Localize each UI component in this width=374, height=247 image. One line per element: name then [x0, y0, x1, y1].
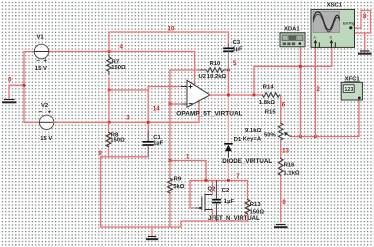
- ground GND3: [275, 225, 287, 228]
- V2 source: [39, 103, 54, 142]
- svg-text:R10: R10: [210, 61, 222, 67]
- wire node5 to output: [227, 70, 229, 95]
- wire R7 bottom to +input riser: [109, 78, 148, 91]
- junction node1: [169, 159, 172, 162]
- wire pot bottom to R16: [280, 141, 282, 159]
- svg-text:R14: R14: [263, 85, 275, 91]
- junction node5: [227, 69, 230, 72]
- svg-text:5kΩ: 5kΩ: [173, 184, 185, 190]
- svg-text:7: 7: [236, 173, 240, 180]
- wire D1 column from output: [227, 95, 229, 140]
- svg-text:13: 13: [282, 147, 289, 154]
- wire D1 anode to node7: [227, 157, 229, 181]
- wire ext ground stub: [364, 33, 366, 51]
- wire 10 R7top to C3: [109, 32, 228, 51]
- junction wire3/R8: [108, 121, 111, 124]
- svg-text:R16: R16: [284, 163, 296, 169]
- svg-text:C3: C3: [233, 40, 241, 46]
- wire net0 to ground: [9, 85, 24, 97]
- junction wire4/R7: [108, 50, 111, 53]
- svg-text:6: 6: [282, 102, 286, 109]
- wire net0 to V2: [24, 85, 39, 122]
- wire Q2 drain riser: [212, 181, 214, 195]
- wire R7col down to wire3: [108, 90, 110, 122]
- wire -input: [170, 103, 182, 105]
- op-amp U2: [176, 74, 242, 118]
- svg-text:R9: R9: [174, 176, 182, 182]
- svg-text:V2: V2: [41, 103, 49, 109]
- resistor R13: [245, 181, 264, 222]
- junction wire3/C1: [147, 121, 150, 124]
- wire 1: [170, 161, 206, 181]
- svg-text:1µF: 1µF: [153, 141, 164, 147]
- wire XDA1 pin down: [299, 44, 301, 137]
- svg-text:8: 8: [363, 13, 367, 20]
- junction node0: [23, 84, 26, 87]
- svg-text:XSC1: XSC1: [327, 2, 343, 8]
- wire ground bus bottom: [101, 221, 248, 227]
- resistor R14: [259, 85, 281, 106]
- junction XDA1/wiper: [299, 135, 302, 138]
- resistor R9: [168, 161, 185, 227]
- svg-text:15 V: 15 V: [40, 136, 52, 142]
- svg-text:0: 0: [282, 199, 286, 206]
- svg-text:R15: R15: [265, 109, 277, 115]
- junction output: [227, 94, 230, 97]
- svg-text:2: 2: [316, 86, 320, 93]
- transistor Q2: [196, 187, 260, 223]
- wire 3 V2 to opamp V-: [54, 102, 199, 123]
- svg-text:XDA1: XDA1: [284, 27, 300, 33]
- svg-text:1µF: 1µF: [232, 47, 243, 53]
- wire output: [210, 94, 263, 96]
- svg-text:10.2kΩ: 10.2kΩ: [207, 74, 227, 80]
- svg-text:V1: V1: [37, 35, 45, 41]
- junction -input: [169, 103, 172, 106]
- svg-text:150Ω: 150Ω: [111, 65, 126, 71]
- svg-text:1.8kΩ: 1.8kΩ: [259, 100, 275, 106]
- wire ground stub: [151, 227, 153, 236]
- svg-text:10: 10: [168, 25, 175, 32]
- ground GND4: [359, 51, 371, 54]
- wire feedback left: [170, 70, 201, 104]
- junction wire1/node7: [205, 179, 208, 182]
- svg-text:9: 9: [98, 150, 102, 157]
- svg-text:150Ω: 150Ω: [110, 138, 125, 144]
- capacitor C1: [143, 131, 163, 157]
- wire net0 V1-junction: [24, 52, 34, 86]
- svg-text:C2: C2: [222, 188, 230, 194]
- junction D1/node7: [227, 179, 230, 182]
- svg-text:D1: D1: [234, 137, 242, 143]
- wire node1 column: [169, 104, 171, 161]
- svg-text:14: 14: [153, 106, 160, 113]
- wire node14 riser down to C1: [147, 90, 149, 141]
- svg-text:150Ω: 150Ω: [250, 209, 265, 215]
- svg-text:0: 0: [8, 77, 12, 84]
- capacitor C2: [213, 181, 235, 222]
- svg-text:1µF: 1µF: [224, 199, 235, 205]
- ground GND1: [3, 100, 16, 103]
- wire riser to +input: [148, 87, 181, 91]
- wire 7 jfet box top: [190, 180, 248, 182]
- svg-text:Q2: Q2: [208, 187, 217, 193]
- resistor R7: [107, 54, 126, 75]
- svg-text:3: 3: [126, 114, 130, 121]
- svg-text:ExtTrig: ExtTrig: [343, 21, 355, 25]
- svg-text:123: 123: [344, 87, 353, 93]
- V1 source: [34, 35, 48, 72]
- svg-text:Key=A: Key=A: [243, 136, 262, 142]
- svg-text:15 V: 15 V: [35, 66, 47, 72]
- svg-text:4: 4: [120, 44, 124, 51]
- svg-text:9.1kΩ: 9.1kΩ: [245, 128, 261, 134]
- svg-text:1.1kΩ: 1.1kΩ: [283, 170, 299, 176]
- wire 2 wiper bus: [292, 99, 360, 137]
- svg-text:50%: 50%: [264, 132, 277, 138]
- resistor R16: [278, 158, 299, 221]
- wire R14 to pot top: [280, 95, 282, 123]
- resistor R10: [200, 61, 230, 73]
- junction XSC1A/wiper: [314, 135, 317, 138]
- wire ext-trig loop: [352, 11, 371, 34]
- svg-text:OPAMP_5T_VIRTUAL: OPAMP_5T_VIRTUAL: [176, 111, 242, 118]
- junction B-link/XDA1 column: [299, 65, 302, 68]
- svg-text:B: B: [330, 36, 332, 40]
- svg-text:DIODE_VIRTUAL: DIODE_VIRTUAL: [222, 158, 272, 165]
- svg-text:1: 1: [186, 153, 190, 160]
- svg-text:R13: R13: [250, 202, 262, 208]
- instrument XFC1: [341, 77, 362, 100]
- potentiometer R15: [243, 123, 292, 142]
- ground GND2: [147, 237, 157, 240]
- resistor R8: [106, 122, 125, 156]
- wire Q2 source drop: [212, 210, 214, 222]
- instrument XSC1: [311, 2, 355, 47]
- wire 9 R8/C1 bottoms: [101, 157, 149, 227]
- svg-text:U2: U2: [199, 74, 207, 80]
- svg-text:JFET_N_VIRTUAL: JFET_N_VIRTUAL: [208, 216, 260, 222]
- junction B-link/output: [253, 94, 256, 97]
- capacitor C3: [224, 40, 243, 70]
- diode D1: [222, 137, 272, 165]
- wire 4 V1 to opamp V+: [49, 52, 195, 85]
- junction R7bottom: [108, 89, 111, 92]
- wire XSC1 B link to output: [254, 45, 332, 95]
- instrument XDA1: [280, 27, 305, 47]
- svg-text:5: 5: [233, 60, 237, 67]
- wire box left to gate: [190, 181, 196, 209]
- wire XSC1 A down: [314, 45, 316, 136]
